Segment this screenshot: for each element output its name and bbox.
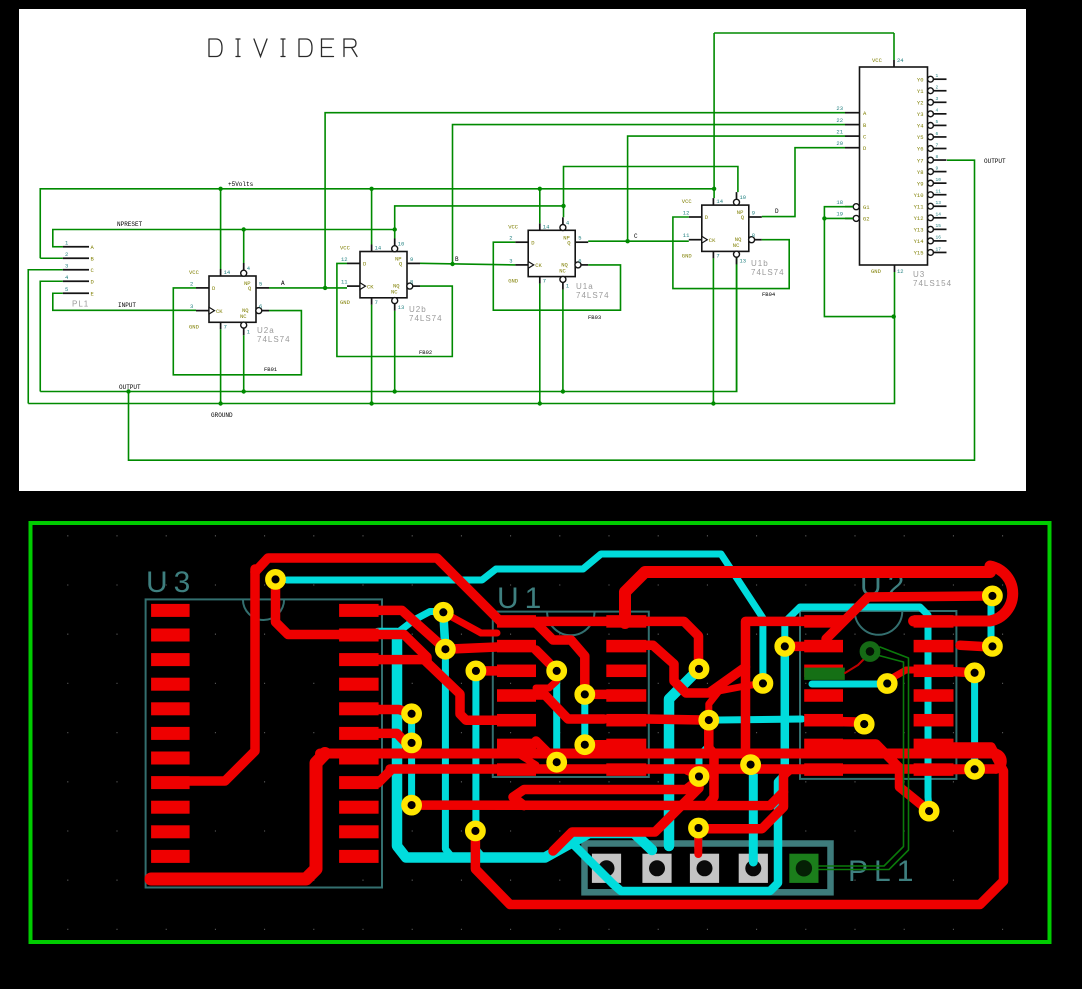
svg-text:8: 8 xyxy=(752,232,755,239)
svg-text:8: 8 xyxy=(936,154,939,160)
svg-text:U3: U3 xyxy=(913,270,925,279)
svg-text:10: 10 xyxy=(936,177,942,183)
svg-text:14: 14 xyxy=(716,198,723,205)
svg-text:7: 7 xyxy=(716,252,719,259)
svg-text:13: 13 xyxy=(740,257,747,264)
svg-text:9: 9 xyxy=(752,210,755,217)
svg-text:VCC: VCC xyxy=(189,269,200,276)
svg-text:15: 15 xyxy=(936,223,942,229)
svg-text:Y9: Y9 xyxy=(917,180,924,187)
svg-text:Y10: Y10 xyxy=(914,192,924,199)
svg-text:Y3: Y3 xyxy=(917,111,924,118)
svg-text:7: 7 xyxy=(375,299,378,306)
svg-text:FB02: FB02 xyxy=(419,349,432,356)
svg-text:FB03: FB03 xyxy=(588,314,601,321)
svg-text:VCC: VCC xyxy=(682,198,693,205)
svg-text:Y15: Y15 xyxy=(914,250,924,257)
svg-text:Y1: Y1 xyxy=(917,88,924,95)
svg-text:CK: CK xyxy=(367,283,374,290)
svg-text:Y13: Y13 xyxy=(914,227,924,234)
svg-text:+5Volts: +5Volts xyxy=(228,181,254,188)
svg-text:Y0: Y0 xyxy=(917,76,924,83)
svg-text:Y7: Y7 xyxy=(917,157,924,164)
svg-text:GND: GND xyxy=(189,323,200,330)
svg-text:2: 2 xyxy=(65,251,68,258)
svg-text:18: 18 xyxy=(836,199,843,206)
svg-text:2: 2 xyxy=(190,280,193,287)
svg-text:21: 21 xyxy=(836,129,843,136)
svg-text:GND: GND xyxy=(682,252,693,259)
svg-text:9: 9 xyxy=(936,165,939,171)
svg-text:U1: U1 xyxy=(497,582,547,615)
svg-text:Y8: Y8 xyxy=(917,169,924,176)
svg-text:U2a: U2a xyxy=(257,326,275,335)
svg-text:23: 23 xyxy=(836,105,843,112)
svg-text:U3: U3 xyxy=(146,566,196,599)
svg-text:VCC: VCC xyxy=(872,57,883,64)
svg-text:6: 6 xyxy=(578,257,581,264)
svg-text:17: 17 xyxy=(936,246,942,252)
svg-text:19: 19 xyxy=(836,211,843,218)
svg-text:14: 14 xyxy=(375,245,382,252)
svg-text:8: 8 xyxy=(410,279,413,286)
svg-text:B: B xyxy=(455,256,459,263)
svg-text:14: 14 xyxy=(936,212,942,218)
svg-text:NC: NC xyxy=(240,313,247,320)
svg-text:11: 11 xyxy=(683,232,690,239)
svg-text:11: 11 xyxy=(341,279,348,286)
svg-text:CK: CK xyxy=(216,308,223,315)
svg-text:7: 7 xyxy=(936,142,939,148)
svg-text:20: 20 xyxy=(836,140,843,147)
svg-text:13: 13 xyxy=(936,200,942,206)
svg-text:12: 12 xyxy=(341,256,348,263)
svg-text:NPRESET: NPRESET xyxy=(117,221,143,228)
svg-text:74LS74: 74LS74 xyxy=(751,268,785,277)
svg-text:D: D xyxy=(775,208,779,215)
svg-text:13: 13 xyxy=(398,304,405,311)
svg-text:16: 16 xyxy=(936,235,942,241)
svg-text:CK: CK xyxy=(535,262,542,269)
svg-text:INPUT: INPUT xyxy=(118,302,136,309)
svg-text:1: 1 xyxy=(936,73,939,79)
svg-text:OUTPUT: OUTPUT xyxy=(984,158,1006,165)
svg-text:3: 3 xyxy=(936,96,939,102)
svg-text:Y12: Y12 xyxy=(914,215,924,222)
svg-text:VCC: VCC xyxy=(508,223,519,230)
svg-text:74LS74: 74LS74 xyxy=(576,291,610,300)
svg-text:74LS74: 74LS74 xyxy=(257,335,291,344)
svg-text:A: A xyxy=(281,280,285,287)
svg-text:FB01: FB01 xyxy=(264,366,278,373)
svg-text:2: 2 xyxy=(936,85,939,91)
svg-text:10: 10 xyxy=(740,194,747,201)
svg-text:14: 14 xyxy=(543,223,550,230)
svg-text:2: 2 xyxy=(509,235,512,242)
svg-text:Y14: Y14 xyxy=(914,238,925,245)
svg-text:GND: GND xyxy=(508,278,519,285)
svg-text:9: 9 xyxy=(410,256,413,263)
svg-text:6: 6 xyxy=(259,303,262,310)
svg-text:FB04: FB04 xyxy=(762,291,776,298)
svg-text:PL1: PL1 xyxy=(72,300,89,309)
svg-text:24: 24 xyxy=(897,57,904,64)
svg-text:5: 5 xyxy=(936,119,939,125)
svg-text:C: C xyxy=(634,233,638,240)
svg-text:VCC: VCC xyxy=(340,245,351,252)
svg-text:Y2: Y2 xyxy=(917,100,924,107)
svg-text:G1: G1 xyxy=(863,204,870,211)
svg-text:4: 4 xyxy=(936,108,939,114)
svg-text:Y11: Y11 xyxy=(914,203,925,210)
svg-text:Y5: Y5 xyxy=(917,134,924,141)
svg-text:U1a: U1a xyxy=(576,282,594,291)
svg-text:U1b: U1b xyxy=(751,259,769,268)
svg-text:5: 5 xyxy=(259,280,262,287)
svg-text:5: 5 xyxy=(65,286,68,293)
svg-text:Y6: Y6 xyxy=(917,146,924,153)
svg-text:22: 22 xyxy=(836,117,843,124)
svg-text:74LS154: 74LS154 xyxy=(913,279,952,288)
svg-text:14: 14 xyxy=(224,269,231,276)
svg-text:U2b: U2b xyxy=(409,305,427,314)
svg-text:12: 12 xyxy=(897,268,904,275)
svg-text:3: 3 xyxy=(190,303,193,310)
svg-text:12: 12 xyxy=(683,210,690,217)
svg-text:CK: CK xyxy=(709,237,716,244)
svg-text:3: 3 xyxy=(65,262,68,269)
svg-text:6: 6 xyxy=(936,131,939,137)
svg-text:GROUND: GROUND xyxy=(211,412,233,419)
svg-text:10: 10 xyxy=(398,241,405,248)
svg-text:7: 7 xyxy=(543,278,546,285)
svg-text:5: 5 xyxy=(578,235,581,242)
svg-text:11: 11 xyxy=(936,189,942,195)
svg-text:PL1: PL1 xyxy=(848,855,919,888)
svg-text:GND: GND xyxy=(340,299,351,306)
svg-text:3: 3 xyxy=(509,257,512,264)
svg-text:Y4: Y4 xyxy=(917,123,924,130)
svg-text:NC: NC xyxy=(733,242,740,249)
svg-text:G2: G2 xyxy=(863,216,870,223)
svg-text:GND: GND xyxy=(871,268,882,275)
svg-text:NC: NC xyxy=(559,267,566,274)
svg-text:74LS74: 74LS74 xyxy=(409,314,443,323)
svg-text:NC: NC xyxy=(391,289,398,296)
svg-text:7: 7 xyxy=(224,323,227,330)
